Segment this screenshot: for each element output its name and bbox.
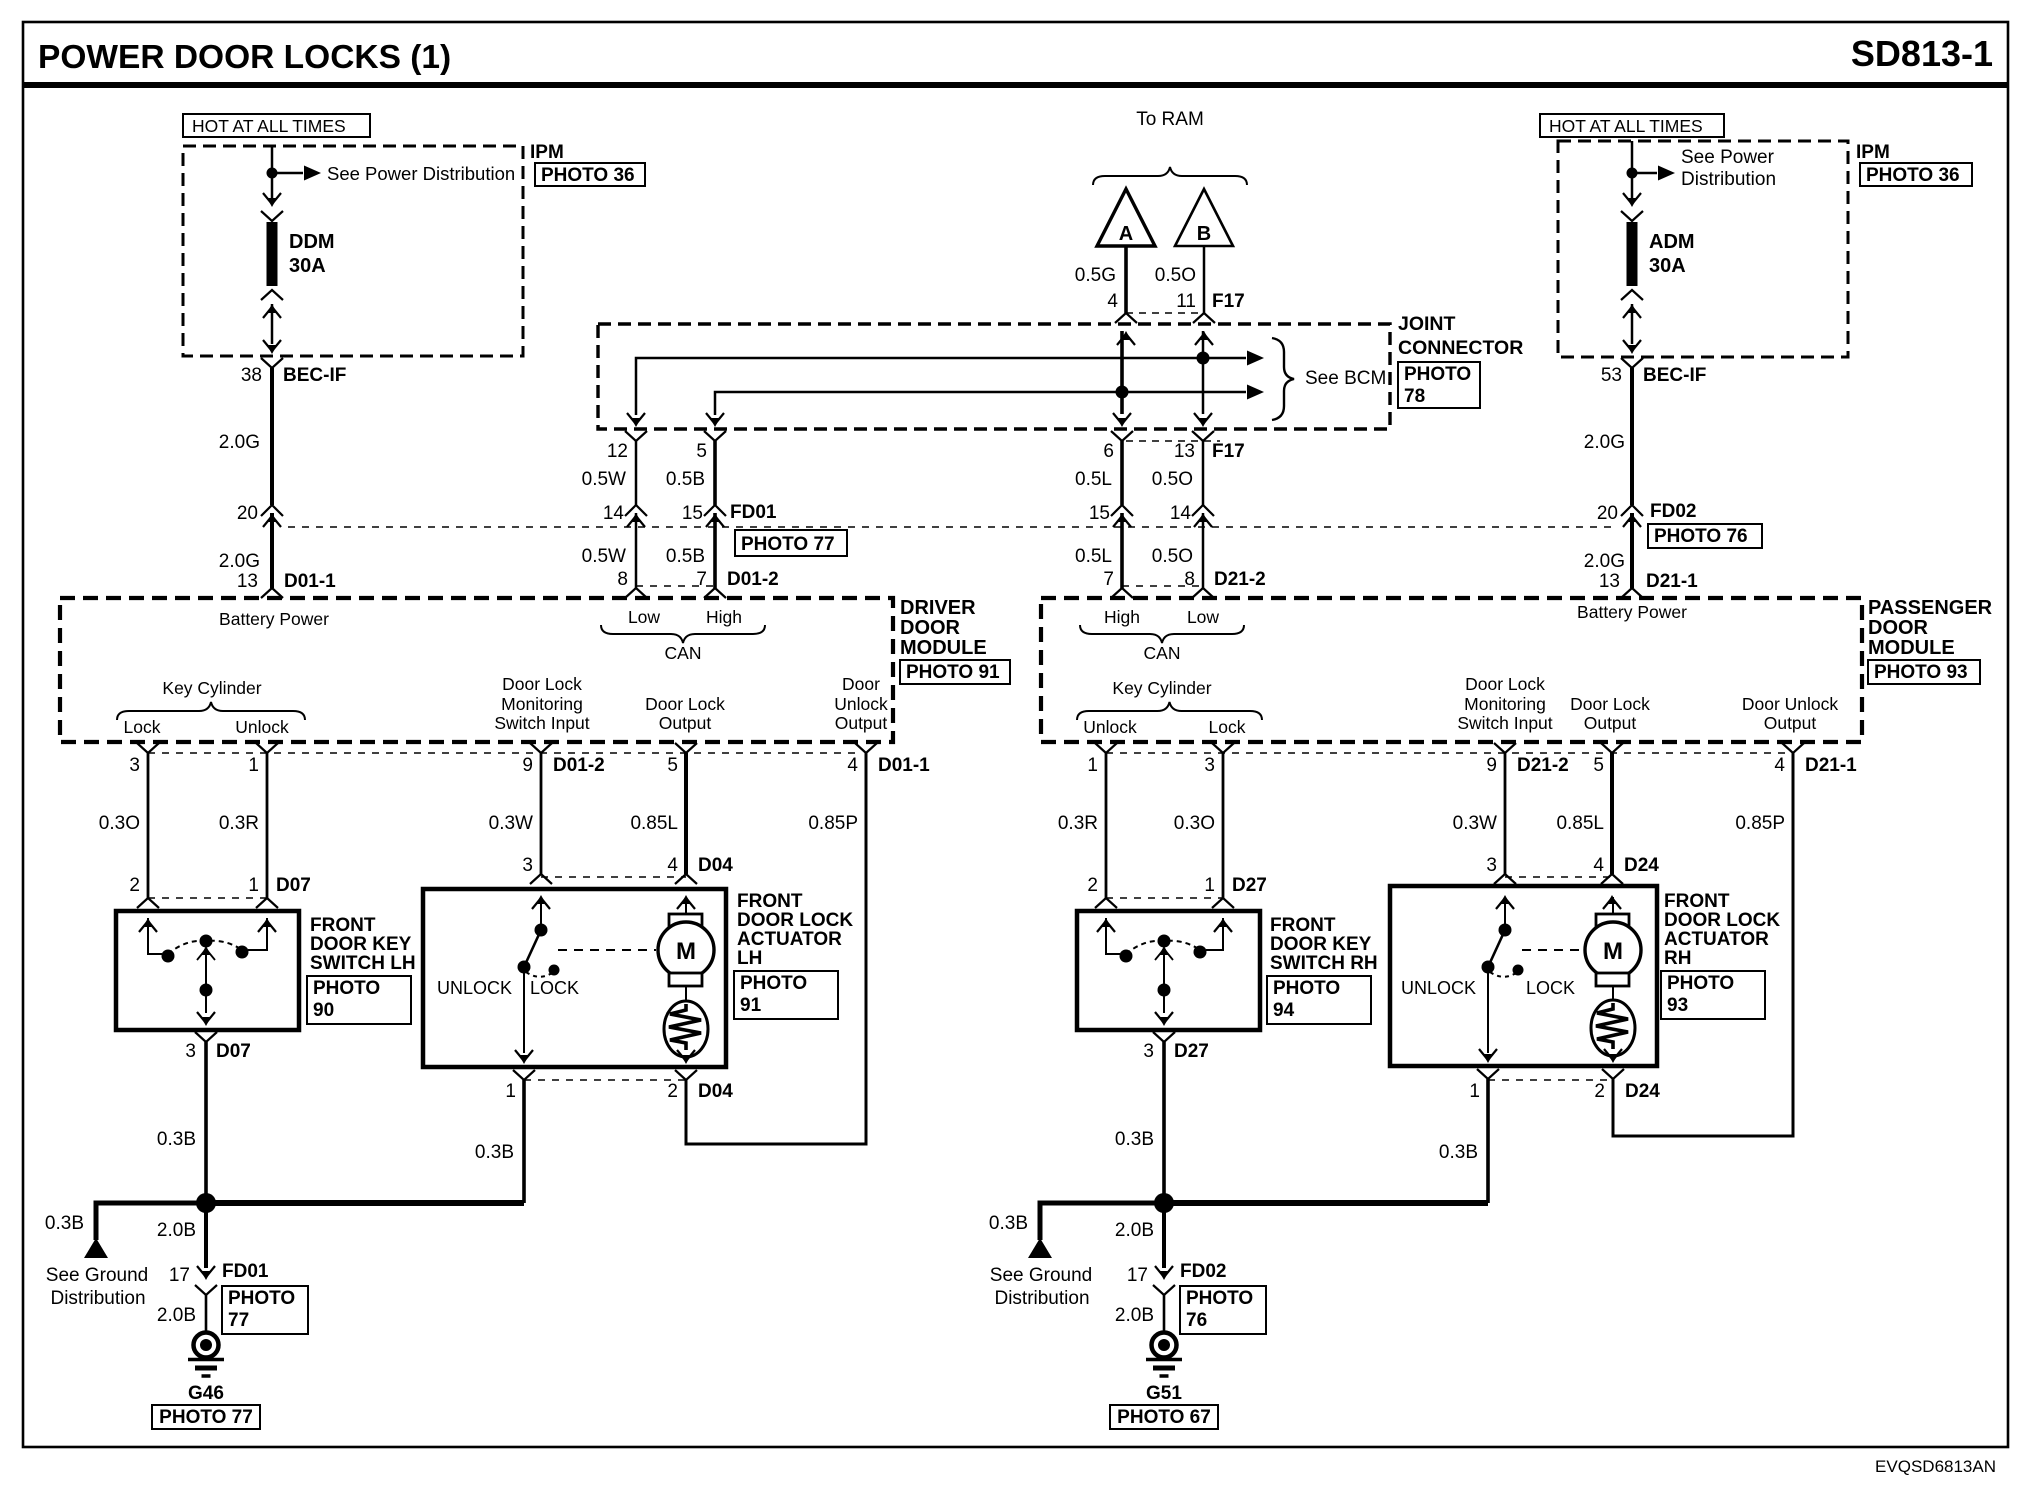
svg-text:PHOTO 77: PHOTO 77 — [741, 534, 835, 555]
label High (passenger) — [1104, 607, 1140, 627]
svg-text:2.0B: 2.0B — [157, 1305, 196, 1326]
wire — [685, 986, 687, 1001]
wire switch pole — [205, 948, 207, 1013]
svg-text:Unlock: Unlock — [1083, 717, 1137, 737]
connector pin3 into actuator RH — [1494, 874, 1516, 909]
svg-text:1: 1 — [1204, 875, 1215, 896]
wire actuator switch feed — [540, 897, 542, 930]
label 13 D01-1 — [237, 571, 336, 592]
label UNLOCK (LH) — [437, 978, 512, 998]
wire junction down (passenger) — [1162, 1203, 1166, 1268]
svg-text:0.5L: 0.5L — [1075, 469, 1112, 490]
IPM dashed box (left) — [183, 146, 523, 356]
photo box PHOTO 91 (actuator LH) — [734, 971, 838, 1019]
svg-text:38: 38 — [241, 365, 262, 386]
label 2.0B — [157, 1305, 196, 1326]
joint connector dashed box — [598, 324, 1390, 429]
wire 0.5O upper — [1202, 441, 1205, 505]
svg-text:PHOTO 76: PHOTO 76 — [1654, 526, 1748, 547]
wire 2.0G (right lower) — [1630, 513, 1634, 588]
wire joint connector lower rail — [715, 392, 1246, 415]
wire 0.5B upper — [713, 441, 717, 505]
label pins 1 2 D04 — [505, 1081, 733, 1102]
sheet code SD813-1 — [1851, 33, 1993, 74]
wire — [271, 146, 274, 198]
svg-text:Door Lock: Door Lock — [1570, 694, 1650, 714]
connector actuator LH pin1 out — [513, 1050, 535, 1080]
connector row D27 — [1106, 897, 1223, 899]
connector FD01 pin 20 — [261, 505, 283, 527]
photo box PHOTO 91 (driver module) — [900, 660, 1010, 684]
passenger door module dashed box — [1041, 598, 1862, 742]
wire to ground G51 — [1163, 1295, 1166, 1333]
svg-text:0.5G: 0.5G — [1075, 265, 1116, 286]
node junction (left feed) — [267, 168, 278, 179]
svg-text:See Ground: See Ground — [46, 1265, 148, 1286]
svg-text:CAN: CAN — [1144, 643, 1181, 663]
motor M RH — [1585, 922, 1641, 978]
label 20 — [237, 503, 258, 524]
label 0.3B — [475, 1142, 514, 1163]
svg-text:DOOR KEY: DOOR KEY — [1270, 934, 1372, 955]
label IPM (right) — [1856, 142, 1890, 163]
switch contact dot left — [162, 950, 175, 963]
svg-text:1: 1 — [248, 755, 259, 776]
svg-text:77: 77 — [228, 1310, 249, 1331]
connector row D01-2 dashed — [636, 585, 715, 587]
svg-text:EVQSD6813AN: EVQSD6813AN — [1875, 1457, 1996, 1476]
brace CAN (driver) — [601, 625, 765, 643]
wire 0.3O — [147, 753, 150, 898]
svg-text:9: 9 — [1486, 755, 1497, 776]
svg-text:PHOTO 77: PHOTO 77 — [159, 1407, 253, 1428]
svg-text:BEC-IF: BEC-IF — [283, 365, 346, 386]
title separator bar — [23, 82, 2008, 88]
svg-text:Door Lock: Door Lock — [502, 674, 582, 694]
connector actuator RH pin1 out — [1477, 1049, 1499, 1079]
node junction on wire A — [1116, 386, 1129, 399]
wire 0.85L — [684, 753, 688, 874]
connector module-out fork — [137, 743, 159, 753]
label pins passenger module out — [1087, 755, 1857, 776]
label See Ground Distribution (driver) — [46, 1265, 148, 1309]
title POWER DOOR LOCKS (1) — [38, 39, 451, 76]
svg-text:0.3B: 0.3B — [1115, 1129, 1154, 1150]
label Low — [628, 607, 660, 627]
svg-text:0.3R: 0.3R — [1058, 813, 1098, 834]
arrow to BCM lower — [1247, 385, 1264, 400]
label FRONT DOOR LOCK ACTUATOR LH — [737, 891, 853, 969]
svg-text:Door: Door — [842, 674, 880, 694]
svg-text:Distribution: Distribution — [994, 1288, 1089, 1309]
svg-text:D27: D27 — [1232, 875, 1267, 896]
svg-text:JOINT: JOINT — [1398, 313, 1456, 335]
label 3 D07 — [185, 1041, 250, 1062]
connector FD01 pin 17 — [195, 1266, 217, 1295]
svg-text:3: 3 — [1486, 855, 1497, 876]
label Unlock (passenger) — [1083, 717, 1137, 737]
IPM dashed box (right) — [1558, 141, 1848, 357]
label 2.0G — [1584, 551, 1625, 572]
label FRONT DOOR LOCK ACTUATOR RH — [1664, 891, 1780, 969]
connector module-out fork — [530, 743, 552, 753]
label 3 D27 — [1143, 1041, 1208, 1062]
svg-text:UNLOCK: UNLOCK — [437, 978, 512, 998]
wire joint connector upper rail — [636, 358, 1246, 415]
svg-text:4: 4 — [1774, 755, 1785, 776]
svg-text:3: 3 — [1204, 755, 1215, 776]
motor M RH brush top — [1596, 914, 1629, 927]
svg-text:12: 12 — [607, 441, 628, 462]
svg-text:9: 9 — [522, 755, 533, 776]
label UNLOCK (RH) — [1401, 978, 1476, 998]
label High — [706, 607, 742, 627]
svg-text:0.5W: 0.5W — [582, 469, 626, 490]
svg-text:PHOTO 36: PHOTO 36 — [1866, 165, 1960, 186]
label G51 — [1146, 1383, 1182, 1404]
connector joint out pin 5 — [704, 413, 726, 441]
label FRONT DOOR KEY SWITCH RH — [1270, 915, 1378, 974]
see ground distribution triangle (driver) — [84, 1238, 108, 1258]
svg-text:D01-1: D01-1 — [284, 571, 336, 592]
svg-text:FD01: FD01 — [730, 502, 777, 523]
front door key switch RH box — [1077, 911, 1260, 1030]
svg-text:PHOTO: PHOTO — [1667, 973, 1734, 994]
label 38 BEC-IF — [241, 365, 346, 386]
label pins 2 1 D27 — [1087, 875, 1266, 896]
label CAN (passenger) — [1144, 643, 1181, 663]
svg-text:0.85L: 0.85L — [630, 813, 678, 834]
svg-text:0.3B: 0.3B — [989, 1213, 1028, 1234]
label Unlock — [235, 717, 289, 737]
ground G46 symbol — [188, 1333, 224, 1377]
svg-text:Door Lock: Door Lock — [645, 694, 725, 714]
svg-text:ADM: ADM — [1649, 231, 1695, 253]
actuator lock contact dot (RH) — [1513, 965, 1524, 976]
svg-text:HOT AT ALL TIMES: HOT AT ALL TIMES — [1549, 116, 1703, 136]
svg-text:SWITCH RH: SWITCH RH — [1270, 953, 1378, 974]
svg-text:30A: 30A — [289, 255, 326, 277]
label G46 — [188, 1383, 224, 1404]
node A triangle — [1097, 189, 1155, 246]
svg-text:Switch Input: Switch Input — [1457, 713, 1552, 733]
wire 0.3R (RH) — [1105, 753, 1108, 898]
svg-text:2.0G: 2.0G — [1584, 432, 1625, 453]
photo box PHOTO 77 (FD01 ground) — [222, 1286, 308, 1334]
svg-text:A: A — [1119, 223, 1133, 245]
svg-text:1: 1 — [1087, 755, 1098, 776]
svg-text:See Power: See Power — [1681, 147, 1775, 168]
label pins 3 4 D24 — [1486, 855, 1659, 876]
svg-text:D07: D07 — [276, 875, 311, 896]
connector pin 8 into passenger module — [1192, 588, 1214, 598]
svg-text:CONNECTOR: CONNECTOR — [1398, 337, 1523, 359]
svg-text:Distribution: Distribution — [50, 1288, 145, 1309]
label See Ground Distribution (passenger) — [990, 1265, 1092, 1309]
connector F17 lower pin row — [1126, 440, 1220, 442]
photo box PHOTO 93 (passenger module) — [1868, 660, 1980, 684]
svg-text:BEC-IF: BEC-IF — [1643, 365, 1706, 386]
svg-text:High: High — [1104, 607, 1140, 627]
svg-text:2.0B: 2.0B — [157, 1220, 196, 1241]
label 14 — [1170, 503, 1192, 524]
svg-text:D24: D24 — [1625, 1081, 1660, 1102]
wire — [1202, 331, 1205, 414]
connector module-out fork — [256, 743, 278, 753]
svg-text:2.0G: 2.0G — [219, 551, 260, 572]
switch contact dot right — [236, 946, 249, 959]
svg-text:LOCK: LOCK — [530, 978, 579, 998]
label 17 FD02 — [1127, 1261, 1227, 1286]
wire — [1612, 986, 1614, 1001]
photo box PHOTO 77 (G46) — [152, 1405, 260, 1429]
label box HOT AT ALL TIMES (right) — [1540, 114, 1724, 137]
svg-text:5: 5 — [667, 755, 678, 776]
svg-text:6: 6 — [1103, 441, 1114, 462]
svg-text:PHOTO: PHOTO — [740, 973, 807, 994]
svg-text:DOOR LOCK: DOOR LOCK — [1664, 910, 1780, 931]
wire 2.0G (left lower) — [270, 513, 274, 588]
mechanical link dashed — [558, 949, 656, 951]
svg-text:D07: D07 — [216, 1041, 251, 1062]
svg-text:30A: 30A — [1649, 255, 1686, 277]
svg-text:4: 4 — [1107, 291, 1118, 312]
svg-text:HOT AT ALL TIMES: HOT AT ALL TIMES — [192, 116, 346, 136]
wire 0.3R — [266, 753, 269, 898]
connector pin 13 into passenger module — [1621, 588, 1643, 598]
wire 0.5O lower — [1202, 513, 1205, 588]
svg-text:DRIVER: DRIVER — [900, 597, 976, 619]
svg-text:93: 93 — [1667, 995, 1688, 1016]
actuator switch dashed arc — [526, 972, 552, 977]
label pins 2 1 D07 — [129, 875, 310, 896]
svg-text:0.85P: 0.85P — [1735, 813, 1785, 834]
svg-text:FRONT: FRONT — [310, 915, 376, 936]
connector joint out pin 12 — [625, 413, 647, 441]
label 0.3B — [45, 1213, 84, 1234]
wire 0.3W — [540, 753, 543, 874]
connector module-out fork — [1494, 743, 1516, 753]
label 2.0B (RH) — [1115, 1305, 1154, 1326]
wire 0.3W (RH) — [1504, 753, 1507, 874]
label 7 D01-2 — [696, 569, 778, 590]
switch contact dot right (RH) — [1194, 946, 1207, 959]
connector actuator RH pin2 out — [1602, 1049, 1624, 1079]
label Battery Power (passenger) — [1577, 602, 1687, 622]
wire to ground G46 — [205, 1295, 208, 1333]
label Key Cylinder (passenger) — [1112, 678, 1211, 698]
node ground junction (driver) — [196, 1193, 216, 1213]
label IPM (left) — [530, 142, 564, 163]
connector row dashed line FD01/F17/FD02 — [288, 526, 1618, 528]
label See Power Distribution — [327, 163, 515, 184]
svg-text:M: M — [1603, 938, 1623, 965]
svg-text:7: 7 — [1103, 569, 1114, 590]
svg-text:PHOTO 91: PHOTO 91 — [906, 662, 1000, 683]
motor M LH brush top — [669, 914, 702, 927]
see ground distribution triangle (passenger) — [1028, 1238, 1052, 1258]
label To RAM — [1136, 109, 1204, 130]
actuator switch pivot dot (RH) — [1482, 961, 1495, 974]
connector key switch LH out — [195, 1012, 217, 1042]
node B triangle — [1175, 189, 1233, 246]
svg-text:Key Cylinder: Key Cylinder — [162, 678, 261, 698]
svg-text:78: 78 — [1404, 386, 1425, 407]
label 0.3W — [489, 813, 533, 834]
svg-text:91: 91 — [740, 995, 762, 1016]
wire see power distribution arrow (left) — [272, 166, 321, 181]
svg-text:Key Cylinder: Key Cylinder — [1112, 678, 1211, 698]
svg-text:Low: Low — [1187, 607, 1219, 627]
svg-text:PHOTO: PHOTO — [1273, 978, 1340, 999]
label 0.85P — [808, 813, 858, 834]
label LOCK (LH) — [530, 978, 579, 998]
label 17 FD01 — [169, 1261, 269, 1286]
connector FD02 pin 17 — [1153, 1266, 1175, 1295]
switch travel dashed arc (RH) — [1126, 941, 1200, 954]
label 0.5L — [1075, 469, 1112, 490]
svg-text:Monitoring: Monitoring — [1464, 694, 1546, 714]
svg-text:Battery Power: Battery Power — [219, 609, 329, 629]
label 53 BEC-IF — [1601, 365, 1706, 386]
svg-text:MODULE: MODULE — [900, 637, 987, 659]
svg-text:0.3B: 0.3B — [475, 1142, 514, 1163]
label CAN (driver) — [665, 643, 702, 663]
connector row passenger module bottom — [1106, 752, 1790, 754]
label 0.3B — [157, 1129, 196, 1150]
label 0.5G — [1075, 265, 1116, 286]
svg-text:Lock: Lock — [124, 717, 161, 737]
label See BCM — [1305, 368, 1386, 389]
wire — [271, 304, 274, 344]
wire 0.5L upper — [1120, 441, 1124, 505]
label 2.0B (RH) — [1115, 1220, 1154, 1241]
brace CAN (passenger) — [1080, 625, 1244, 643]
svg-text:17: 17 — [169, 1265, 190, 1286]
photo box PHOTO 77 (FD01) — [735, 530, 847, 556]
label 0.85L (RH) — [1556, 813, 1604, 834]
svg-text:0.3O: 0.3O — [99, 813, 140, 834]
label 0.5O — [1155, 265, 1196, 286]
wire 0.5G — [1124, 246, 1128, 313]
svg-text:0.85L: 0.85L — [1556, 813, 1604, 834]
svg-text:13: 13 — [1599, 571, 1620, 592]
svg-text:4: 4 — [667, 855, 678, 876]
svg-text:Lock: Lock — [1209, 717, 1246, 737]
wire switch stub right — [248, 918, 267, 950]
svg-text:2.0B: 2.0B — [1115, 1305, 1154, 1326]
svg-text:2: 2 — [1087, 875, 1098, 896]
svg-text:D21-1: D21-1 — [1805, 755, 1857, 776]
svg-text:1: 1 — [248, 875, 259, 896]
connector pin2 into key switch LH — [137, 898, 159, 932]
connector row D04 top — [541, 876, 686, 878]
svg-text:DOOR KEY: DOOR KEY — [310, 934, 412, 955]
photo box PHOTO 93 (actuator RH) — [1661, 971, 1765, 1019]
connector row D21-2 dashed — [1122, 585, 1203, 587]
node junction on wire B — [1197, 352, 1210, 365]
connector pin1 into key switch RH — [1212, 898, 1234, 932]
connector F17 pin 15 — [1111, 505, 1133, 527]
label 0.3O (RH) — [1174, 813, 1215, 834]
connector pin2 into key switch RH — [1095, 898, 1117, 932]
brace over triangles — [1093, 167, 1247, 185]
svg-text:Unlock: Unlock — [235, 717, 289, 737]
connector pin 4 into joint connector — [1115, 313, 1137, 345]
connector FD01 pin 15 — [704, 505, 726, 527]
label Key Cylinder (driver) — [162, 678, 261, 698]
connector F17 pin 14 — [1192, 505, 1214, 527]
connector pin4 into actuator RH — [1601, 874, 1623, 909]
connector actuator LH pin2 out — [675, 1050, 697, 1080]
svg-text:PHOTO: PHOTO — [313, 978, 380, 999]
switch pole arrow (RH) — [1155, 946, 1173, 960]
driver door module dashed box — [60, 598, 893, 742]
wire 2.0G (left upper) — [270, 368, 274, 505]
connector pin 13 into driver module — [261, 588, 283, 598]
photo box PHOTO 76 (FD02) — [1648, 524, 1762, 548]
svg-text:17: 17 — [1127, 1265, 1148, 1286]
svg-text:PHOTO 36: PHOTO 36 — [541, 165, 635, 186]
svg-text:0.5B: 0.5B — [666, 546, 705, 567]
svg-text:DOOR: DOOR — [1868, 617, 1929, 639]
svg-text:15: 15 — [682, 503, 703, 524]
svg-text:13: 13 — [237, 571, 258, 592]
svg-text:DDM: DDM — [289, 231, 335, 253]
svg-text:0.5O: 0.5O — [1155, 265, 1196, 286]
label 0.5O — [1152, 469, 1193, 490]
label pins 3 4 D04 — [522, 855, 733, 876]
label 0.85L — [630, 813, 678, 834]
connector pin 7 into driver module — [704, 588, 726, 598]
svg-text:20: 20 — [1597, 503, 1618, 524]
wire stub to ground distribution (passenger) — [1040, 1203, 1164, 1240]
label 0.5W — [582, 469, 626, 490]
svg-text:FRONT: FRONT — [1664, 891, 1730, 912]
label DDM 30A — [289, 231, 335, 277]
mechanical link dashed (RH) — [1522, 949, 1582, 951]
fuse ADM 30A — [1621, 193, 1643, 318]
switch travel dashed arc — [168, 941, 242, 954]
label 0.85P (RH) — [1735, 813, 1785, 834]
wire 0.85L (RH) — [1610, 753, 1614, 874]
svg-text:To RAM: To RAM — [1136, 109, 1204, 130]
connector module-out fork — [675, 743, 697, 753]
connector key switch RH out — [1153, 1012, 1175, 1042]
label 2.0G — [219, 551, 260, 572]
svg-text:DOOR LOCK: DOOR LOCK — [737, 910, 853, 931]
svg-text:SD813-1: SD813-1 — [1851, 33, 1993, 74]
footer code EVQSD6813AN — [1875, 1457, 1996, 1476]
svg-text:G51: G51 — [1146, 1383, 1182, 1404]
connector row D24 bottom — [1488, 1079, 1613, 1081]
connector module-out fork — [855, 743, 877, 753]
front door lock actuator RH box — [1390, 886, 1657, 1066]
connector pin1 into key switch LH — [256, 898, 278, 932]
label Low (passenger) — [1187, 607, 1219, 627]
svg-text:94: 94 — [1273, 1000, 1295, 1021]
label Door Lock Output (passenger) — [1570, 694, 1650, 733]
svg-text:Output: Output — [835, 713, 888, 733]
label pins 4 11 F17 — [1107, 291, 1244, 312]
label 0.5B — [666, 469, 705, 490]
svg-text:0.3R: 0.3R — [219, 813, 259, 834]
label 2.0B — [157, 1220, 196, 1241]
wire actuator LH pin1 down — [522, 1080, 526, 1203]
svg-text:D24: D24 — [1624, 855, 1659, 876]
label pins driver module out — [129, 755, 930, 776]
svg-text:D04: D04 — [698, 855, 733, 876]
